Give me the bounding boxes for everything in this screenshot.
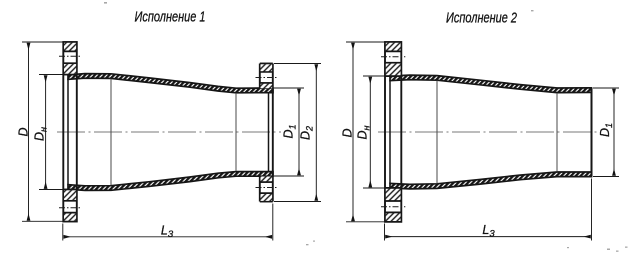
dimension D1 extension line bottom — [274, 175, 304, 177]
dimension Dн extension line bottom — [363, 187, 385, 189]
dimension D1 extension line bottom — [593, 176, 619, 178]
shell upper wall (hatched section band) — [68, 74, 273, 93]
svg-text:D: D — [16, 127, 30, 136]
flange F3 bolt hole axis bottom — [381, 206, 405, 208]
svg-text:Исполнение 2: Исполнение 2 — [446, 10, 517, 26]
pipe end face small end — [591, 88, 593, 177]
dimension Dн extension line top — [39, 74, 63, 76]
svg-text:Dн: Dн — [356, 125, 372, 139]
svg-text:D2: D2 — [299, 126, 315, 140]
dimension D2 extension line top — [274, 63, 321, 65]
dimension Dн line — [45, 76, 47, 189]
left flange F1 body — [63, 42, 77, 222]
dimension D extension line top — [22, 41, 63, 43]
weld seam line large end — [110, 79, 112, 185]
dimension D extension line top — [346, 41, 385, 43]
pipe end face (small end, seen through bore) — [268, 93, 270, 172]
dimension D1 extension line top — [593, 87, 619, 89]
dimension L3 line — [64, 236, 272, 238]
dimension Dн extension line top — [363, 75, 385, 77]
shell lower wall (hatched section band) — [390, 172, 592, 189]
svg-text:D1: D1 — [598, 123, 614, 137]
flange F3 bolt hole axis top — [381, 56, 405, 58]
dimension D line — [28, 43, 30, 220]
dimension L3 extension line right — [591, 179, 593, 241]
weld seam line small end — [235, 93, 237, 171]
right flange F2 bolt hole axis top — [256, 77, 278, 79]
right flange F2 hatching — [261, 64, 273, 71]
left flange F1 bolt hole axis top — [59, 55, 82, 57]
pipe end face (large end, seen through bore) — [67, 79, 69, 186]
svg-text:D: D — [341, 128, 355, 137]
dimension D1 line — [613, 89, 615, 176]
shell upper wall (hatched section band) — [390, 75, 592, 93]
svg-text:Dн: Dн — [32, 127, 48, 141]
dimension D1 extension line top — [274, 87, 304, 89]
right flange F2 body — [260, 64, 273, 202]
flange F3 body — [385, 42, 401, 222]
dimension Dн extension line bottom — [39, 189, 63, 191]
dimension L3 extension line right — [272, 204, 274, 241]
dimension D1 line — [298, 89, 300, 175]
flange F3 hatching — [386, 43, 401, 51]
weld seam line small end — [556, 93, 558, 172]
dimension D extension line bottom — [22, 220, 63, 222]
dimension L3 line — [386, 236, 591, 238]
dimension D2 line — [315, 65, 317, 201]
right flange F2 bolt hole axis bottom — [256, 187, 278, 189]
shell lower wall (hatched section band) — [68, 172, 273, 191]
dimension L3 extension line left — [62, 224, 64, 241]
centerline (axis, dash-dot) — [378, 131, 597, 133]
scan speckles — [104, 2, 628, 252]
svg-text:D1: D1 — [282, 124, 298, 138]
dimension L3 extension line left — [384, 224, 386, 241]
svg-text:Исполнение 1: Исполнение 1 — [135, 10, 206, 26]
svg-text:L3: L3 — [161, 224, 174, 241]
dimension D extension line bottom — [346, 221, 385, 223]
left flange F1 hatching — [64, 43, 76, 51]
centerline (axis, dash-dot) — [57, 131, 281, 133]
left flange F1 bolt hole axis bottom — [59, 207, 82, 209]
dimension D2 extension line bottom — [274, 201, 321, 203]
dimension Dн line — [369, 77, 371, 187]
dimension D line — [352, 43, 354, 221]
pipe end face (large end, seen through bore) — [389, 80, 391, 184]
weld seam line large end — [436, 81, 438, 184]
